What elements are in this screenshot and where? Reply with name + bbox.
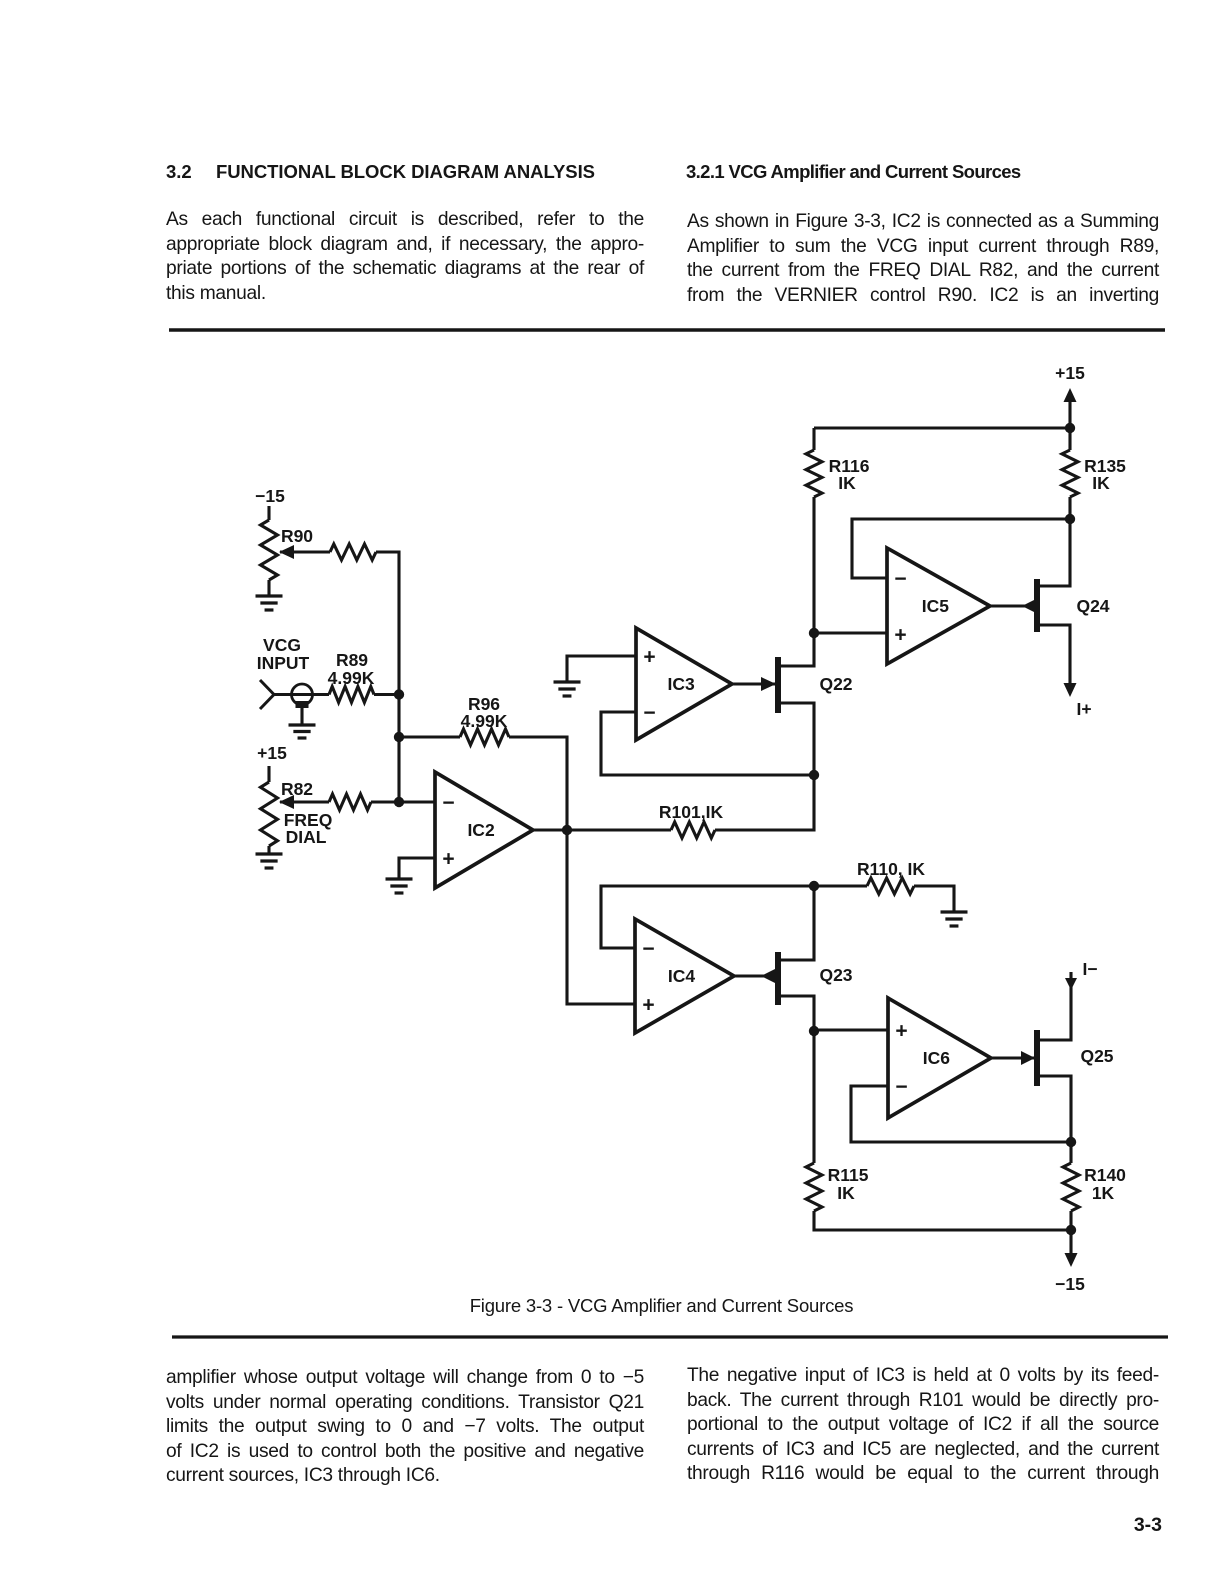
svg-text:Q24: Q24 [1076, 596, 1109, 616]
svg-text:+: + [643, 646, 655, 669]
svg-text:Q23: Q23 [819, 965, 852, 985]
svg-text:IC3: IC3 [668, 674, 696, 694]
svg-text:−: − [642, 938, 654, 961]
svg-text:Q22: Q22 [819, 674, 852, 694]
svg-text:IK: IK [837, 1183, 855, 1203]
svg-text:R110, IK: R110, IK [857, 859, 925, 879]
svg-text:+: + [442, 848, 454, 871]
svg-text:INPUT: INPUT [257, 653, 310, 673]
svg-text:VCG: VCG [263, 635, 301, 655]
svg-text:4.99K: 4.99K [328, 668, 375, 688]
svg-text:R82: R82 [281, 779, 313, 799]
svg-text:R89: R89 [336, 650, 368, 670]
svg-text:4.99K: 4.99K [461, 711, 508, 731]
svg-text:−: − [442, 792, 454, 815]
svg-text:+15: +15 [1055, 363, 1085, 383]
svg-text:1K: 1K [1092, 1183, 1115, 1203]
svg-text:I−: I− [1082, 959, 1097, 979]
svg-text:IK: IK [1092, 473, 1110, 493]
svg-text:+: + [895, 1020, 907, 1043]
svg-text:−15: −15 [255, 486, 285, 506]
svg-text:R140: R140 [1084, 1165, 1126, 1185]
svg-text:R115: R115 [828, 1165, 869, 1185]
svg-text:+: + [642, 994, 654, 1017]
svg-text:IC4: IC4 [668, 966, 696, 986]
svg-text:IC6: IC6 [923, 1048, 951, 1068]
svg-text:DIAL: DIAL [286, 827, 327, 847]
svg-text:Q25: Q25 [1080, 1046, 1113, 1066]
svg-text:−15: −15 [1055, 1274, 1085, 1294]
svg-text:−: − [894, 568, 906, 591]
svg-text:IK: IK [838, 473, 856, 493]
svg-text:I+: I+ [1076, 699, 1091, 719]
svg-text:−: − [895, 1076, 907, 1099]
svg-text:IC5: IC5 [922, 596, 950, 616]
svg-text:R90: R90 [281, 526, 313, 546]
svg-text:−: − [643, 702, 655, 725]
svg-text:+15: +15 [257, 743, 287, 763]
svg-text:+: + [894, 624, 906, 647]
svg-text:IC2: IC2 [467, 820, 495, 840]
svg-text:R101,IK: R101,IK [659, 802, 724, 822]
